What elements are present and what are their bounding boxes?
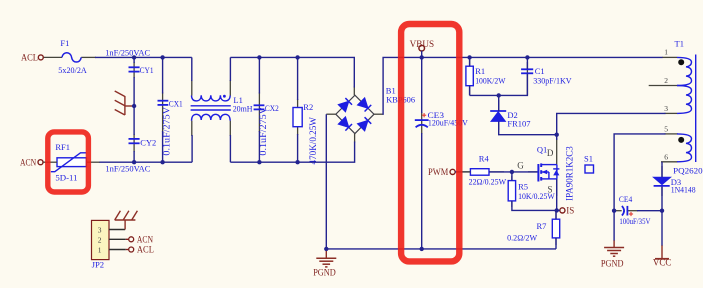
svg-text:1: 1 <box>664 47 668 56</box>
node VBUS <box>420 55 424 59</box>
svg-text:1nF/250VAC: 1nF/250VAC <box>105 47 150 57</box>
pins drawn over highlight boxes <box>43 162 470 172</box>
capacitor CY1 <box>105 47 153 75</box>
node bottom rail CY2 <box>132 160 136 164</box>
svg-text:S: S <box>548 185 553 195</box>
svg-text:6: 6 <box>664 152 668 161</box>
wire IS node stub to port <box>557 209 560 211</box>
svg-text:PGND: PGND <box>313 267 336 277</box>
wire G down to R5 <box>511 172 513 181</box>
capacitor CY2 <box>105 137 156 173</box>
testpoint S1 <box>584 153 594 173</box>
wire pwm to R4 <box>455 171 470 173</box>
wire CE3 column top <box>421 57 423 113</box>
svg-text:R2: R2 <box>303 102 313 112</box>
wire pgnd horizontal <box>326 248 556 250</box>
wire R4 to G node <box>489 171 512 173</box>
svg-text:1: 1 <box>98 246 102 255</box>
ground PGND right <box>601 240 624 269</box>
wire T1 pin6 down to D3 <box>661 162 663 177</box>
node top rail R2 <box>295 55 299 59</box>
pin CY2 <box>133 134 135 152</box>
svg-text:D: D <box>547 148 554 158</box>
bridge rectifier B1 <box>336 85 415 133</box>
node IS <box>555 208 559 212</box>
wire bridge right to vbus rail <box>383 57 663 114</box>
svg-text:470K/0.25W: 470K/0.25W <box>308 117 318 165</box>
pin T1 p3 <box>665 112 678 114</box>
wire vcc node down <box>661 211 663 246</box>
node CY mid earth <box>132 104 136 108</box>
wire CY column mid <box>133 77 135 135</box>
diode D2 <box>490 110 530 129</box>
svg-text:120uF/450V: 120uF/450V <box>428 117 469 127</box>
wire CY column bottom <box>133 151 135 162</box>
pin R1 <box>469 60 471 66</box>
svg-text:ACL: ACL <box>21 53 38 63</box>
port IS <box>560 205 575 215</box>
svg-text:JP2: JP2 <box>92 260 105 270</box>
wire R5 bottom to IS node <box>512 201 557 211</box>
pin CE4 <box>614 210 622 212</box>
svg-text:2: 2 <box>664 76 668 85</box>
svg-text:2: 2 <box>98 235 102 244</box>
pin F1 leads <box>44 56 62 58</box>
svg-text:IS: IS <box>566 205 574 215</box>
pin R4 left lead <box>456 171 471 173</box>
port PWM <box>428 167 455 177</box>
svg-text:100uF/35V: 100uF/35V <box>619 216 651 226</box>
svg-text:G: G <box>517 161 524 171</box>
svg-text:5D-11: 5D-11 <box>55 172 77 182</box>
pin C1 <box>526 62 528 95</box>
svg-text:100K/2W: 100K/2W <box>475 75 505 85</box>
wire top rail choke to bridge <box>230 57 354 87</box>
wire R2 column bottom <box>297 134 299 162</box>
wire D2 top stub <box>498 95 500 111</box>
svg-text:C1: C1 <box>535 66 545 76</box>
wire C1 top stub <box>526 57 528 69</box>
ground earth CY mid <box>115 91 132 115</box>
node CE3 bottom <box>420 247 424 251</box>
pin R5 <box>511 176 513 181</box>
node bottom rail R2 <box>295 160 299 164</box>
node CE4 left <box>612 209 616 213</box>
svg-text:22Ω/0.25W: 22Ω/0.25W <box>469 176 507 186</box>
svg-text:F1: F1 <box>60 38 69 48</box>
svg-text:CY2: CY2 <box>140 137 156 147</box>
pin T1 p5 <box>665 133 679 135</box>
wire drain down to Q1 <box>556 135 558 140</box>
wire drain node to T1 pin3 <box>557 113 666 134</box>
wire R7 bottom <box>555 238 557 249</box>
capacitor CE4 <box>619 194 651 226</box>
svg-text:20mH: 20mH <box>233 104 253 114</box>
transistor Q1 mosfet <box>537 144 575 201</box>
svg-text:0.2Ω/2W: 0.2Ω/2W <box>507 232 537 242</box>
capacitor CX1 <box>158 98 183 155</box>
wire choke right rise <box>229 57 231 81</box>
svg-text:ACL: ACL <box>137 245 154 255</box>
wire D2 bottom to drain node <box>499 121 557 134</box>
svg-text:5x20/2A: 5x20/2A <box>58 65 87 75</box>
svg-text:ACN: ACN <box>137 235 154 245</box>
wire CE4 right to vcc node <box>637 210 662 212</box>
pin RF1 right lead <box>86 161 99 163</box>
svg-text:R7: R7 <box>537 221 547 231</box>
inductor L1 common mode choke <box>191 95 231 121</box>
wire R1 top stub <box>469 57 471 66</box>
pin CY1 <box>133 62 135 78</box>
svg-text:3: 3 <box>664 104 668 113</box>
svg-text:R5: R5 <box>518 181 528 191</box>
node R1C1 bottom <box>497 93 501 97</box>
wire choke left drop <box>191 57 193 81</box>
svg-text:R4: R4 <box>479 154 490 164</box>
svg-text:CX1: CX1 <box>169 98 183 108</box>
pin L1 <box>191 80 193 96</box>
wire top rail fuse to choke <box>95 56 192 58</box>
wire vbus port stub <box>421 51 423 58</box>
svg-text:VCC: VCC <box>653 257 671 267</box>
svg-text:1N4148: 1N4148 <box>671 185 696 195</box>
wire D3 to vcc node <box>661 187 663 211</box>
wire choke bottom-right drop <box>229 135 231 162</box>
node bottom rail CX1 <box>160 160 164 164</box>
wire bottom rail left <box>99 161 192 163</box>
wire CX2 column bottom <box>258 131 260 162</box>
PINS (dark grey) <box>44 57 678 245</box>
power VCC <box>653 245 671 267</box>
resistor R1 <box>466 66 506 86</box>
ground earth JP2 <box>115 211 138 220</box>
port ACL <box>21 53 43 63</box>
pin R4 <box>489 171 504 173</box>
node G <box>510 170 514 174</box>
port VBUS <box>410 39 435 51</box>
svg-text:R1: R1 <box>475 66 485 76</box>
wire R2 column top <box>297 57 299 100</box>
diode D3 <box>653 177 695 195</box>
svg-text:PQ2620: PQ2620 <box>673 165 703 175</box>
pin T1 p6 <box>661 161 678 163</box>
wire R1 C1 bottom link <box>469 86 471 96</box>
wire T1 pin5 to CE4 node <box>614 134 665 211</box>
svg-text:3: 3 <box>98 226 102 235</box>
svg-text:VBUS: VBUS <box>410 39 435 49</box>
svg-text:Q1: Q1 <box>537 144 547 154</box>
node top rail CX2 <box>257 55 261 59</box>
pin D2 <box>498 100 500 111</box>
wire IS node down to R7 <box>555 210 557 219</box>
node bottom rail CX2 <box>257 160 261 164</box>
wire bottom rail choke to bridge <box>230 142 354 163</box>
pin Q1 gate <box>528 171 537 173</box>
wire CE3 column bottom <box>421 133 423 249</box>
svg-text:5: 5 <box>664 124 668 133</box>
pin Q1 drain <box>556 138 558 165</box>
highlight box VBUS CE3 <box>401 24 459 261</box>
svg-text:RF1: RF1 <box>55 142 70 152</box>
wire Q1 source down <box>556 179 558 210</box>
resistor R2 <box>293 102 318 165</box>
pin Q1 source <box>556 179 558 196</box>
pin CE3 <box>421 112 423 134</box>
node drain <box>555 133 559 137</box>
svg-text:PWM: PWM <box>428 167 448 177</box>
node pgnd left <box>324 247 328 251</box>
capacitor CX2 <box>254 103 279 156</box>
transformer T1 <box>664 38 702 175</box>
varistor RF1 <box>20 142 86 182</box>
wire bridge DC- down to pgnd <box>325 114 327 249</box>
svg-text:CY1: CY1 <box>140 65 154 75</box>
svg-text:CE4: CE4 <box>619 194 633 204</box>
pin CX1 <box>162 93 164 133</box>
svg-text:IPA90R1K2C3: IPA90R1K2C3 <box>565 146 575 201</box>
node VCC top <box>660 209 664 213</box>
resistor R4 <box>469 154 507 187</box>
svg-text:ACN: ACN <box>20 157 37 167</box>
svg-text:T1: T1 <box>675 38 684 48</box>
pin T1 p2 <box>649 85 677 87</box>
svg-text:S1: S1 <box>584 153 593 163</box>
node R1 top <box>467 55 471 59</box>
resistor R5 <box>508 181 554 202</box>
wire CX1 column bottom <box>162 131 164 162</box>
wire CX2 column top <box>258 57 260 93</box>
pin T1 p1 <box>662 56 677 58</box>
resistor R7 <box>507 219 560 242</box>
capacitor CE3 <box>415 110 469 127</box>
wire CE4 node down to pgnd2 <box>613 211 615 241</box>
svg-text:FR107: FR107 <box>507 119 530 129</box>
node top rail CY1 <box>132 55 136 59</box>
pin R7 <box>555 212 557 219</box>
capacitor C1 <box>521 66 572 86</box>
svg-text:330pF/1KV: 330pF/1KV <box>533 75 572 85</box>
ground PGND left <box>313 249 336 277</box>
pin R2 <box>297 99 299 108</box>
node top rail CX1 <box>160 55 164 59</box>
fuse F1 <box>58 38 87 75</box>
wire G node to gate <box>512 171 538 173</box>
svg-text:1nF/250VAC: 1nF/250VAC <box>105 164 150 174</box>
connector JP2 <box>92 220 154 270</box>
svg-text:PGND: PGND <box>601 259 624 269</box>
wire CY column top <box>133 57 135 63</box>
node C1 top <box>525 55 529 59</box>
wire CX1 column top <box>162 57 164 93</box>
pin bridge <box>353 87 355 96</box>
pin D3 <box>661 166 663 177</box>
highlight box RF1 <box>48 132 89 192</box>
pin CX2 <box>258 93 260 133</box>
wire choke bottom-left drop <box>191 135 193 162</box>
pin RF1 left lead <box>43 161 57 163</box>
